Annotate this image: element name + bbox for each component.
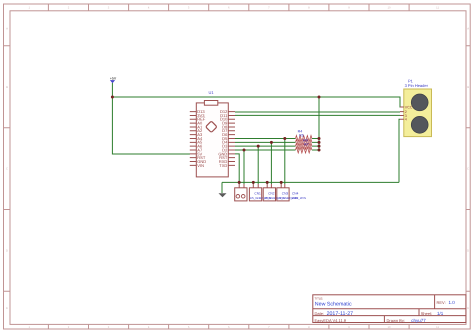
wire +5V stem down to rail <box>111 83 113 97</box>
wire button3 signal drop <box>270 142 272 184</box>
button S1 circles <box>236 195 240 199</box>
junction bus-D3 <box>318 145 321 148</box>
bottom ticks <box>48 324 409 329</box>
svg-text:4: 4 <box>148 6 150 9</box>
junction D2-S1 <box>243 149 246 152</box>
svg-text:4: 4 <box>148 326 150 329</box>
junction bus-D4 <box>318 141 321 144</box>
svg-text:CN1: CN1 <box>254 192 261 196</box>
wire IC GND to ground rail <box>235 154 239 183</box>
svg-text:1: 1 <box>28 6 30 9</box>
button CN1 box <box>249 188 261 201</box>
svg-text:A: A <box>6 27 8 30</box>
svg-text:7: 7 <box>268 6 270 9</box>
title block <box>313 295 466 323</box>
svg-text:VIN: VIN <box>197 163 204 168</box>
svg-text:10: 10 <box>388 6 391 9</box>
svg-text:GNBT_2PIN: GNBT_2PIN <box>291 197 307 200</box>
svg-text:CN2: CN2 <box>268 192 275 196</box>
svg-text:EasyEDA V4.11.9: EasyEDA V4.11.9 <box>315 318 347 323</box>
wire D11 to P1 pin3 <box>235 114 400 116</box>
power flag +5V <box>110 77 116 83</box>
svg-text:11: 11 <box>436 326 439 329</box>
svg-text:8: 8 <box>308 6 310 9</box>
wire button left-pin stubs <box>239 182 281 184</box>
junction gnd-CN2 <box>266 181 269 184</box>
IC U1 <box>196 90 228 177</box>
IC U1 diamond <box>206 121 217 132</box>
wire D3 row <box>235 145 319 147</box>
svg-text:5: 5 <box>188 6 190 9</box>
wire D5 row <box>235 137 319 139</box>
svg-text:A: A <box>467 27 469 30</box>
svg-text:New Schematic: New Schematic <box>315 301 352 307</box>
IC U1 left pins <box>190 112 197 166</box>
svg-text:6: 6 <box>228 326 230 329</box>
wire ground rail <box>222 181 399 183</box>
junction D5-CN3 <box>283 137 286 140</box>
svg-text:Date:: Date: <box>315 311 325 316</box>
junction D4-CN2 <box>270 141 273 144</box>
wire D12 to P1 pin2 <box>235 111 400 113</box>
junction D3-CN1 <box>257 145 260 148</box>
svg-text:TITLE:: TITLE: <box>315 297 324 300</box>
wire +5V bus vertical <box>318 97 320 150</box>
svg-text:1/1: 1/1 <box>437 311 443 316</box>
right ticks <box>466 46 470 291</box>
junction bus-D2 <box>318 149 321 152</box>
resistor R4 <box>296 129 312 141</box>
svg-text:2: 2 <box>68 6 70 9</box>
junction gnd-S1 <box>238 181 241 184</box>
svg-text:Sheet:: Sheet: <box>421 311 433 316</box>
wire P1 pin4 drop to ground rail <box>399 119 400 182</box>
svg-text:B: B <box>467 86 469 89</box>
button S1 box <box>235 188 247 201</box>
svg-text:P1: P1 <box>408 79 413 84</box>
junction +5V tap <box>111 96 114 99</box>
svg-text:11: 11 <box>436 6 439 9</box>
svg-text:9: 9 <box>348 6 350 9</box>
IC U1 right pin labels D12-D2 GND RST RXD TXD <box>218 110 227 168</box>
wire button4 signal drop <box>284 138 286 184</box>
IC U1 right pins <box>228 112 235 166</box>
svg-text:TXD: TXD <box>219 163 227 168</box>
junction gnd-CN1 <box>252 181 255 184</box>
wire +5V rail to P1 VCC <box>112 97 403 107</box>
wire +5V down-left to IC 5V pin <box>112 97 190 154</box>
wire button1 signal drop <box>243 150 245 184</box>
wire ground stem <box>221 182 223 193</box>
wires <box>112 83 403 193</box>
connector labels CN1-CN4 <box>250 192 306 200</box>
connector boxes S1 CN1 CN2 CN3 <box>235 184 289 201</box>
svg-text:CN3: CN3 <box>282 192 289 196</box>
wire D4 row <box>235 141 319 143</box>
resistor R6 <box>296 138 312 149</box>
svg-text:4: 4 <box>405 117 407 122</box>
junction gnd-CN3 <box>280 181 283 184</box>
svg-text:8: 8 <box>308 326 310 329</box>
svg-text:9: 9 <box>348 326 350 329</box>
svg-text:E: E <box>6 307 8 310</box>
svg-text:+5V: +5V <box>110 77 116 81</box>
svg-text:U1: U1 <box>208 90 213 95</box>
left ticks <box>4 46 10 291</box>
svg-text:D: D <box>467 249 469 252</box>
ground <box>219 193 227 197</box>
button CN3 box <box>277 188 289 201</box>
svg-text:VCC: VCC <box>405 105 413 110</box>
svg-text:B: B <box>6 86 8 89</box>
svg-text:chyu77: chyu77 <box>411 318 426 323</box>
svg-text:REV:: REV: <box>437 301 446 306</box>
svg-text:7: 7 <box>268 326 270 329</box>
header P1 (3 Pin Header) <box>400 79 432 137</box>
svg-text:1.0: 1.0 <box>449 300 455 305</box>
svg-text:C: C <box>6 168 8 171</box>
button pin stubs <box>239 184 285 188</box>
svg-text:2: 2 <box>68 326 70 329</box>
junction bus-D5 <box>318 137 321 140</box>
svg-text:10: 10 <box>388 326 391 329</box>
IC U1 body <box>196 103 228 177</box>
svg-text:R7: R7 <box>304 142 309 147</box>
svg-text:3: 3 <box>108 326 110 329</box>
resistor R7 <box>296 142 312 153</box>
top ticks <box>48 4 409 11</box>
svg-text:Drawn By:: Drawn By: <box>387 318 405 323</box>
IC U1 left pin labels D13 3V3 REF A0-A7 5V RST GND VIN <box>197 110 206 168</box>
svg-text:2017-11-27: 2017-11-27 <box>327 311 354 317</box>
button CN2 box <box>263 188 275 201</box>
wire D2 row <box>235 149 319 151</box>
svg-text:CN4: CN4 <box>292 192 299 196</box>
svg-text:3 Pin Header: 3 Pin Header <box>405 84 429 89</box>
svg-text:5: 5 <box>188 326 190 329</box>
svg-text:6: 6 <box>228 6 230 9</box>
svg-text:E: E <box>467 307 469 310</box>
IC U1 top notch <box>204 101 217 106</box>
svg-text:1: 1 <box>28 326 30 329</box>
svg-text:R5: R5 <box>299 133 304 138</box>
junction dots <box>111 96 321 184</box>
svg-text:D: D <box>6 249 8 252</box>
wire button2 signal drop <box>257 146 259 184</box>
svg-text:3: 3 <box>108 6 110 9</box>
svg-text:C: C <box>467 168 469 171</box>
junction rail-bus <box>318 96 321 99</box>
resistor R5 <box>296 133 312 145</box>
